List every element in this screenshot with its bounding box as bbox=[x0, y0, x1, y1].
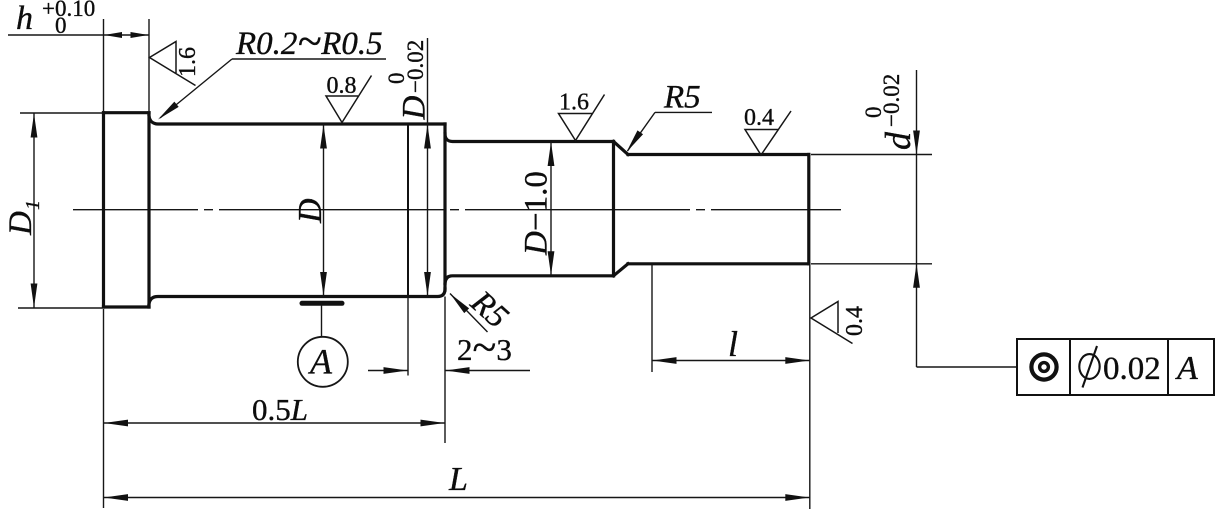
svg-text:1.6: 1.6 bbox=[559, 90, 589, 116]
svg-text:l: l bbox=[728, 324, 738, 364]
svg-text:d: d bbox=[878, 131, 918, 150]
shaft section D-1.0 with R5 fillets bbox=[445, 134, 614, 283]
dimension D 0/-0.02 bbox=[384, 38, 433, 297]
dimension 0.5L bbox=[104, 297, 446, 509]
svg-text:−0.02: −0.02 bbox=[879, 74, 904, 127]
svg-text:1.6: 1.6 bbox=[175, 47, 201, 77]
fillet label R0.2~R0.5 with leader bbox=[156, 17, 386, 122]
shaft section d bbox=[628, 155, 809, 264]
svg-text:−0.02: −0.02 bbox=[403, 40, 428, 93]
fillet label R5 (top) with leader bbox=[624, 80, 712, 154]
svg-text:−1.0: −1.0 bbox=[519, 171, 555, 231]
svg-text:+0.10: +0.10 bbox=[42, 0, 95, 21]
leader to feature control frame bbox=[913, 264, 1017, 367]
svg-text:A: A bbox=[308, 342, 333, 382]
svg-text:0.5L: 0.5L bbox=[252, 392, 308, 427]
step face at end of D section bbox=[443, 124, 446, 290]
surface finish 1.6 on extension line bbox=[150, 42, 202, 86]
surface finish 0.4 on extension line (rotated) bbox=[811, 302, 868, 344]
svg-text:R5: R5 bbox=[463, 284, 515, 336]
feature control frame (concentricity phi 0.02 A) bbox=[1017, 339, 1214, 395]
surface finish 1.6 on D-1.0 section bbox=[559, 90, 605, 141]
svg-text:h: h bbox=[16, 0, 33, 37]
dimension d 0/-0.02 bbox=[811, 70, 932, 264]
relief groove boundary line at x=408 bbox=[407, 125, 409, 296]
svg-text:D: D bbox=[519, 231, 555, 256]
svg-text:0.8: 0.8 bbox=[327, 73, 357, 99]
svg-text:A: A bbox=[1175, 350, 1198, 387]
svg-text:0.4: 0.4 bbox=[744, 105, 774, 131]
datum feature A (target bar, stem, circle) bbox=[298, 303, 348, 387]
dimension D-1.0 bbox=[519, 142, 555, 276]
svg-text:2~3: 2~3 bbox=[457, 323, 512, 372]
svg-text:0.02: 0.02 bbox=[1103, 351, 1161, 387]
svg-text:D: D bbox=[3, 211, 39, 236]
dimension D1 bbox=[3, 113, 103, 308]
surface finish 0.8 on D section bbox=[326, 73, 372, 123]
svg-text:L: L bbox=[448, 461, 468, 498]
dimension L bbox=[104, 265, 810, 509]
dimension 2~3 (relief width) bbox=[368, 297, 530, 376]
dimension D bbox=[292, 124, 329, 297]
surface finish 0.4 on d section bbox=[744, 105, 791, 155]
svg-text:1: 1 bbox=[22, 200, 44, 210]
svg-text:0.4: 0.4 bbox=[842, 306, 868, 336]
shaft section D (with fillets R0.2~R0.5 at flange) bbox=[149, 116, 445, 304]
dimension h with tolerance +0.10/0 bbox=[8, 0, 149, 111]
fillet label R5 (bottom) with leader bbox=[448, 284, 515, 336]
svg-text:R5: R5 bbox=[663, 80, 701, 116]
centerline (shaft axis) bbox=[73, 209, 841, 211]
svg-text:D: D bbox=[397, 96, 433, 121]
svg-text:0: 0 bbox=[55, 13, 67, 38]
svg-text:D: D bbox=[292, 198, 329, 224]
chamfer cone to small section bbox=[614, 142, 629, 276]
flange (D1 section) bbox=[104, 113, 150, 307]
dimension l bbox=[652, 265, 810, 373]
